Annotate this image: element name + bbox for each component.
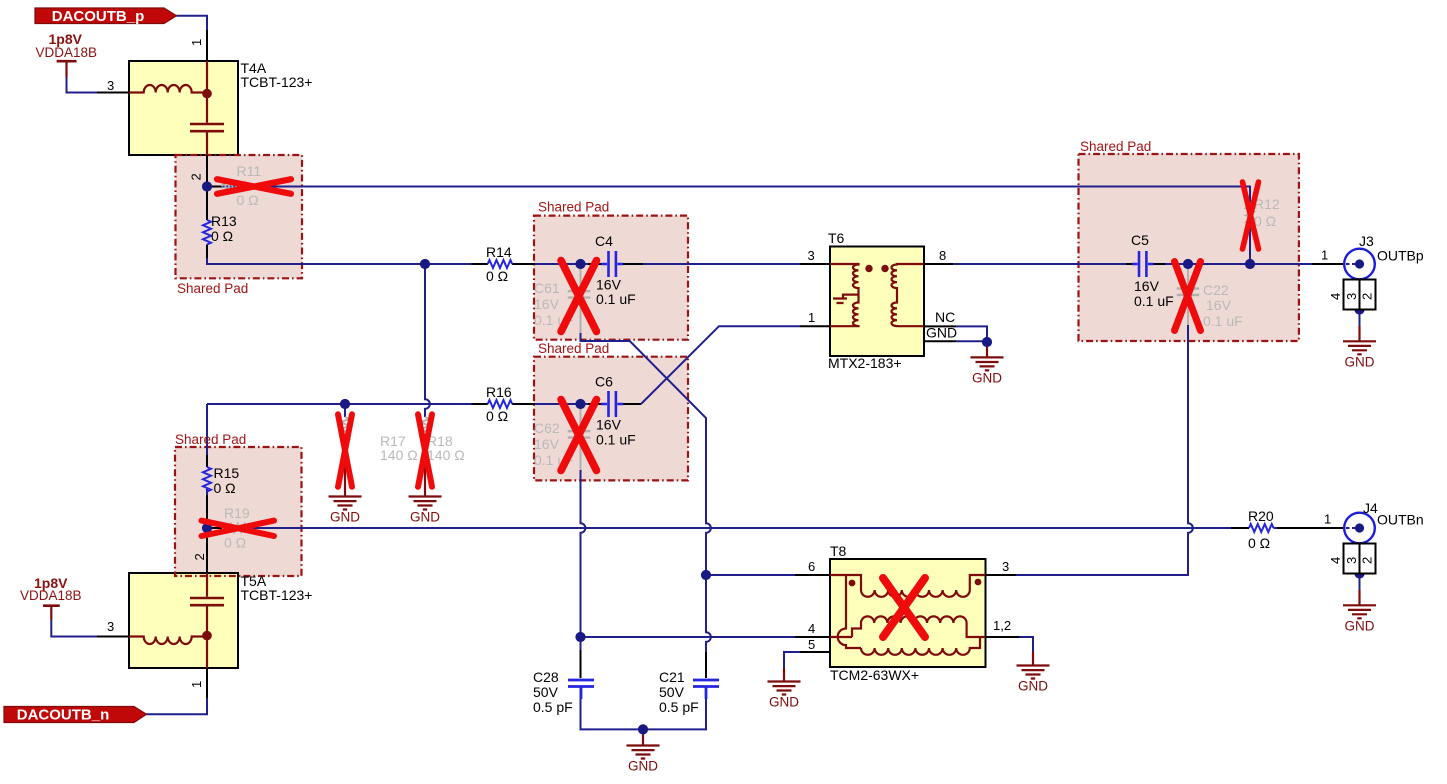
- DNP cross C22: [1175, 262, 1201, 331]
- svg-text:T6: T6: [828, 230, 845, 246]
- shared pad region fill (C6/C62): [534, 357, 688, 481]
- pin stub T6 pin1: [800, 325, 830, 327]
- pin stub R11 left: [211, 186, 222, 188]
- pin stub T5A pin2: [206, 534, 208, 574]
- pin stubs R20: [1231, 527, 1346, 529]
- svg-text:OUTBn: OUTBn: [1377, 512, 1424, 528]
- resistor R20 zigzag: [1249, 524, 1274, 532]
- svg-text:2: 2: [1360, 293, 1375, 300]
- svg-text:0.1 uF: 0.1 uF: [1203, 313, 1243, 329]
- maroon stub T8 pin12 gnd: [1032, 652, 1034, 666]
- shared pad region fill (R11/R13): [176, 155, 303, 278]
- svg-text:R12: R12: [1254, 196, 1280, 212]
- svg-text:VDDA18B: VDDA18B: [20, 588, 82, 603]
- DNP cross R18: [418, 414, 432, 487]
- wire C6 diagonal to T6 pin 1: [641, 326, 800, 404]
- svg-text:16V: 16V: [1206, 297, 1232, 313]
- svg-text:3: 3: [1344, 293, 1359, 300]
- svg-text:C5: C5: [1131, 232, 1149, 248]
- pin stub T8 pin4: [795, 636, 830, 638]
- wire C5 to J3 pin 1: [1149, 263, 1346, 265]
- pin stubs R14: [472, 263, 536, 265]
- shared pad region fill (C4/C61): [534, 216, 688, 340]
- wire T8 pin 3 to C22 column: [1016, 325, 1193, 575]
- svg-text:4: 4: [1328, 293, 1343, 300]
- svg-text:1: 1: [189, 681, 204, 688]
- pin stub J3: [1312, 263, 1346, 265]
- pin stub T8 pin12: [986, 636, 1019, 638]
- wire OUTBn row: [247, 527, 1232, 529]
- net flag DACOUTB_p: [35, 8, 177, 24]
- wire T8 pin6 column down to C21: [706, 575, 711, 652]
- transformer T8 body: [830, 559, 986, 667]
- wire net R11 row to R12 top: [211, 187, 1250, 204]
- pin stub T6 pin8: [924, 263, 953, 265]
- svg-text:4: 4: [808, 621, 815, 636]
- svg-text:T8: T8: [830, 543, 847, 559]
- ground J3: [1343, 341, 1376, 369]
- T4A internal vertical: [206, 61, 208, 155]
- svg-text:DACOUTB_n: DACOUTB_n: [17, 707, 110, 724]
- pin stub T5A pin1: [206, 668, 208, 699]
- wire C6 right stub: [623, 403, 641, 405]
- T5A internal inductor and wire: [129, 637, 207, 645]
- junction node T8 pin4: [575, 632, 585, 642]
- junction node C28 C21 gnd: [638, 724, 648, 734]
- wire T8 pin 5 to gnd: [784, 652, 800, 668]
- svg-text:1: 1: [189, 39, 204, 46]
- wire R15 column: [206, 404, 208, 455]
- wire T8 pin 6 branch: [706, 574, 795, 576]
- wire T6 GND pin to gnd node: [956, 340, 987, 342]
- pin stub T6 GND: [924, 340, 956, 342]
- shared pad region fill (R15/R19): [175, 447, 302, 576]
- wire VDDA18B to T5A pin 3: [51, 620, 97, 637]
- resistor R12 zigzag DNP gray: [1246, 203, 1254, 228]
- svg-text:16V: 16V: [596, 417, 622, 433]
- maroon stub T6 gnd: [986, 346, 988, 357]
- maroon stub C28 C21 gnd: [642, 733, 644, 746]
- T8 winding B middle: [852, 616, 986, 637]
- resistor R18 lower gray stub: [424, 442, 426, 466]
- pin stub T5A pin3: [97, 636, 130, 638]
- svg-text:0.1 uF: 0.1 uF: [596, 291, 636, 307]
- resistor R19 zigzag DNP gray: [222, 524, 247, 532]
- maroon stub T8 pin5 gnd: [783, 668, 785, 682]
- T4A internal capacitor: [190, 124, 224, 131]
- pin stub T8 pin5: [800, 651, 830, 653]
- T6 primary winding: [830, 264, 859, 326]
- polarity dot T8 right: [975, 579, 982, 586]
- svg-text:0.1 uF: 0.1 uF: [596, 432, 636, 448]
- svg-text:0 Ω: 0 Ω: [486, 268, 508, 284]
- svg-text:DACOUTB_p: DACOUTB_p: [52, 8, 145, 25]
- maroon stub J3 gnd: [1358, 326, 1360, 341]
- svg-text:16V: 16V: [1134, 278, 1160, 294]
- capacitor C6: [601, 391, 623, 417]
- bias tee T4A body: [129, 61, 238, 155]
- pin stub C21 top: [705, 652, 707, 678]
- svg-text:MTX2-183+: MTX2-183+: [828, 355, 902, 371]
- svg-text:TCBT-123+: TCBT-123+: [241, 587, 313, 603]
- capacitor C28: [568, 680, 594, 699]
- svg-text:140 Ω: 140 Ω: [380, 447, 418, 463]
- svg-text:C6: C6: [595, 374, 613, 390]
- svg-text:J3: J3: [1359, 233, 1374, 249]
- ground J4: [1343, 605, 1376, 633]
- wire T8 pin 4 row: [581, 636, 796, 638]
- T8 pin4 entry: [830, 636, 852, 638]
- pin stub T4A pin2: [206, 154, 208, 183]
- wire T8 pin 1,2 to gnd: [1019, 637, 1033, 652]
- capacitor C22 gray stubs: [1187, 268, 1189, 325]
- svg-text:0 Ω: 0 Ω: [214, 480, 236, 496]
- wire R16 row left: [207, 403, 488, 405]
- svg-text:0 Ω: 0 Ω: [1254, 213, 1276, 229]
- power bar VDDA18B bottom: [43, 604, 60, 607]
- polarity dot T6 right: [881, 265, 888, 272]
- svg-text:C4: C4: [595, 233, 613, 249]
- wire VDDA18B to T4A pin 3: [67, 77, 98, 93]
- pin stub T8 pin3: [986, 574, 1016, 576]
- svg-text:C21: C21: [659, 669, 685, 685]
- polarity dot T6 left: [865, 265, 872, 272]
- svg-text:2: 2: [189, 173, 204, 180]
- pin stubs R15: [206, 455, 208, 523]
- svg-text:3: 3: [107, 619, 114, 634]
- svg-text:1: 1: [1321, 248, 1328, 263]
- capacitor C62 gray stubs: [580, 408, 582, 470]
- ground T8 pin5: [768, 682, 801, 710]
- pin stub R19 left: [211, 527, 222, 529]
- junction node C4 C61: [575, 259, 585, 269]
- svg-text:1: 1: [1324, 512, 1331, 527]
- svg-text:J4: J4: [1363, 500, 1378, 516]
- ground T6 NC/GND: [971, 357, 1004, 385]
- svg-text:OUTBp: OUTBp: [1377, 248, 1424, 264]
- wire T6 pin 8 to C5: [924, 263, 1137, 265]
- svg-text:3: 3: [107, 78, 114, 93]
- svg-text:C22: C22: [1203, 282, 1229, 298]
- wire main row R13 to R14: [207, 256, 488, 264]
- resistor R17 lower gray stub: [344, 442, 346, 466]
- shared pad border (C4/C61): [534, 216, 688, 340]
- svg-text:0.1 uF: 0.1 uF: [1134, 293, 1174, 309]
- svg-text:2: 2: [1360, 557, 1375, 564]
- junction node R13 R14 column: [420, 259, 430, 269]
- pin stub C28 top: [580, 650, 582, 678]
- svg-text:C28: C28: [533, 669, 559, 685]
- capacitor C4: [601, 251, 623, 277]
- maroon wire VDDA18B top: [65, 61, 67, 77]
- svg-text:0 Ω: 0 Ω: [486, 408, 508, 424]
- junction node T4A pin2 R11 R13: [202, 181, 212, 191]
- resistor R17 zigzag DNP gray: [341, 417, 349, 442]
- resistor R15 zigzag: [203, 467, 211, 492]
- shared pad border (R15/R19): [175, 447, 302, 576]
- wire T6 NC to gnd node: [956, 326, 987, 342]
- svg-text:140 Ω: 140 Ω: [427, 447, 465, 463]
- DNP cross C61: [561, 261, 597, 332]
- wire C4 to T6 pin 3: [623, 263, 830, 265]
- svg-text:TCM2-63WX+: TCM2-63WX+: [830, 667, 919, 683]
- pin stubs C6: [588, 403, 641, 405]
- DNP cross R17: [338, 414, 352, 487]
- T5A internal capacitor: [190, 598, 224, 605]
- svg-text:R15: R15: [214, 465, 240, 481]
- svg-text:16V: 16V: [534, 296, 560, 312]
- junction node R17: [340, 399, 350, 409]
- wire C61 bottom diagonal to T8 pin 6 column: [581, 333, 711, 575]
- DNP cross T8: [883, 578, 925, 637]
- junction node C5 C22: [1183, 259, 1193, 269]
- wire R17 top stub: [344, 404, 346, 417]
- connector J4 coax: [1344, 513, 1376, 574]
- capacitor C21: [693, 680, 719, 699]
- DNP cross R12: [1243, 182, 1259, 249]
- pin stub T6 NC: [924, 325, 956, 327]
- svg-text:VDDA18B: VDDA18B: [36, 45, 98, 60]
- junction node T6 NC GND: [982, 337, 992, 347]
- shared pad border (C5/C22/R12): [1079, 154, 1299, 341]
- svg-text:1,2: 1,2: [993, 618, 1011, 633]
- svg-text:5: 5: [808, 637, 815, 652]
- svg-text:R14: R14: [486, 244, 512, 260]
- pin stub T4A pin1: [206, 30, 208, 62]
- svg-text:Shared Pad: Shared Pad: [1080, 139, 1151, 154]
- svg-text:0 Ω: 0 Ω: [211, 228, 233, 244]
- resistor R16 zigzag: [488, 400, 513, 408]
- T8 winding C bottom: [861, 637, 980, 655]
- svg-text:0 Ω: 0 Ω: [1248, 535, 1270, 551]
- shared pad region fill (C5/C22/R12): [1079, 154, 1299, 341]
- svg-text:R16: R16: [486, 384, 512, 400]
- svg-text:16V: 16V: [534, 436, 560, 452]
- wire R12 bottom stub: [1249, 228, 1251, 265]
- capacitor C5: [1132, 251, 1154, 277]
- wire DACOUTB_p flag to T4A pin 1: [177, 16, 208, 30]
- wire C62 bottom column to T8 pin 4: [581, 470, 586, 652]
- pin stubs R16: [472, 403, 536, 405]
- resistor R18 zigzag DNP gray: [421, 417, 429, 442]
- svg-text:2: 2: [192, 553, 207, 560]
- resistor R14 zigzag: [488, 260, 513, 268]
- node T5A internal: [202, 631, 212, 641]
- wire R14 to C4: [512, 263, 601, 265]
- wire C4 net vertical to R18: [425, 264, 430, 417]
- wire DACOUTB_n flag to T5A pin 1: [147, 699, 208, 715]
- svg-text:NC: NC: [935, 309, 955, 325]
- node T4A internal: [202, 89, 212, 99]
- resistor R11 zigzag DNP gray: [222, 183, 247, 191]
- svg-text:R13: R13: [211, 213, 237, 229]
- svg-text:R11: R11: [237, 163, 262, 179]
- maroon stub R17 gnd: [344, 460, 346, 497]
- DNP cross R11: [217, 179, 291, 194]
- junction node T8 pin6: [701, 570, 711, 580]
- svg-text:0 Ω: 0 Ω: [237, 192, 259, 208]
- svg-text:Shared Pad: Shared Pad: [175, 432, 246, 447]
- svg-text:3: 3: [808, 248, 815, 263]
- T5A internal vertical: [206, 573, 208, 668]
- svg-text:TCBT-123+: TCBT-123+: [241, 74, 313, 90]
- ground R17: [329, 497, 362, 525]
- polarity dot T8 left: [849, 580, 856, 587]
- svg-text:0 Ω: 0 Ω: [224, 535, 246, 551]
- svg-text:3: 3: [1002, 559, 1009, 574]
- capacitor C61 DNP gray: [568, 291, 591, 297]
- pin stub T8 pin6: [795, 574, 830, 576]
- junction node R12 OUTBp: [1245, 259, 1255, 269]
- svg-text:6: 6: [808, 559, 815, 574]
- svg-text:50V: 50V: [659, 684, 685, 700]
- maroon stub J4 gnd: [1358, 590, 1360, 605]
- wire J3 shield to gnd: [1359, 310, 1361, 328]
- capacitor C22 DNP gray: [1177, 289, 1200, 295]
- connector J3 coax: [1344, 249, 1376, 310]
- svg-text:Shared Pad: Shared Pad: [538, 341, 609, 356]
- DNP cross C62: [561, 400, 597, 471]
- svg-text:3: 3: [1344, 557, 1359, 564]
- pin stub T6 pin3: [800, 263, 830, 265]
- pin stubs C5: [1126, 263, 1165, 265]
- capacitor C61 gray stubs: [580, 268, 582, 333]
- wire R20 to J4: [1274, 527, 1278, 529]
- svg-text:0.5 pF: 0.5 pF: [533, 699, 573, 715]
- net flag DACOUTB_n: [4, 707, 147, 723]
- maroon wire VDDA18B bottom: [50, 606, 52, 620]
- svg-text:0.5 pF: 0.5 pF: [659, 699, 699, 715]
- bias tee T5A body: [129, 573, 238, 668]
- pin stubs R13: [206, 190, 208, 258]
- transformer T6 body: [830, 247, 924, 357]
- capacitor C62 DNP gray: [568, 431, 591, 437]
- wire R16 to C6: [512, 403, 601, 405]
- svg-text:8: 8: [939, 248, 946, 263]
- wire C28 bottom to GND node: [581, 688, 644, 729]
- svg-text:C62: C62: [534, 420, 560, 436]
- T8 winding A pin6 to pin3: [830, 575, 986, 597]
- svg-text:R19: R19: [224, 505, 250, 521]
- ground T8 pin1,2: [1017, 666, 1050, 694]
- maroon stub R18 gnd: [424, 460, 426, 497]
- ground C28 C21: [627, 746, 660, 774]
- T6 secondary winding: [892, 264, 925, 326]
- pin stub T4A pin3: [97, 92, 130, 94]
- svg-text:Shared Pad: Shared Pad: [538, 200, 609, 215]
- junction node R15 R19: [202, 523, 212, 533]
- svg-text:4: 4: [1328, 557, 1343, 564]
- svg-text:GND: GND: [926, 325, 957, 341]
- pin stubs C4: [588, 263, 643, 265]
- power bar VDDA18B top: [57, 60, 77, 63]
- svg-text:Shared Pad: Shared Pad: [177, 281, 248, 296]
- resistor R13 zigzag: [203, 220, 211, 245]
- T8 left vertical branch with hop: [838, 575, 861, 648]
- ground R18: [409, 497, 442, 525]
- junction node C6 C62: [575, 399, 585, 409]
- DNP cross R19: [202, 521, 275, 536]
- svg-text:1: 1: [808, 310, 815, 325]
- wire C21 bottom to GND node: [643, 688, 706, 729]
- wire J4 shield to gnd: [1359, 574, 1361, 592]
- wire R15 bottom to junction: [206, 489, 208, 536]
- junction node J3 shield: [1354, 304, 1364, 314]
- T4A internal inductor and wire: [129, 85, 207, 92]
- svg-text:50V: 50V: [533, 684, 559, 700]
- svg-text:R20: R20: [1248, 508, 1274, 524]
- shared pad border (R11/R13): [176, 155, 303, 278]
- svg-text:C61: C61: [534, 280, 560, 296]
- T6 primary center tap ground: [833, 295, 859, 303]
- junction node J4 shield: [1354, 568, 1364, 578]
- shared pad border (C6/C62): [534, 357, 688, 481]
